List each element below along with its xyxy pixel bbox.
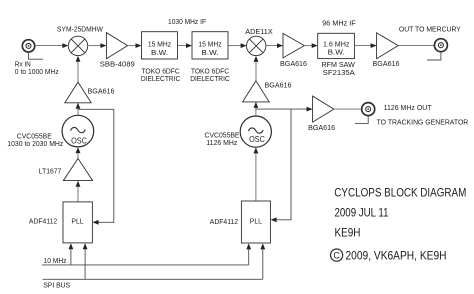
wire into A7 xyxy=(307,107,313,112)
wire A5 to OSC1 xyxy=(76,147,81,158)
net 10 MHz bus xyxy=(42,256,249,265)
wire A7 to connector J3 xyxy=(334,108,362,110)
svg-text:B.W.: B.W. xyxy=(328,48,345,57)
svg-text:ADF4112: ADF4112 xyxy=(29,217,57,226)
ground of J3 xyxy=(355,116,368,124)
svg-text:1126 MHz OUT: 1126 MHz OUT xyxy=(384,103,432,112)
ground of J2 xyxy=(427,52,441,60)
wire FL2 to mixer U2 xyxy=(228,43,247,48)
svg-text:0 to 1000 MHz: 0 to 1000 MHz xyxy=(15,69,59,76)
svg-text:OSC: OSC xyxy=(71,135,87,145)
svg-text:OUT TO MERCURY: OUT TO MERCURY xyxy=(399,24,461,33)
op-amp A2 BGA616 xyxy=(280,33,307,68)
filter FL3 1.6 MHz B.W. RFM SAW SF2135A xyxy=(318,33,355,58)
label RFM SAW SF2135A (FL3) xyxy=(321,60,355,77)
svg-text:ADF4112: ADF4112 xyxy=(210,217,238,226)
op-amp A1 SBB-4089 xyxy=(100,33,135,69)
wire FL3 to amp A3 xyxy=(354,43,376,48)
svg-text:PLL: PLL xyxy=(71,216,83,225)
wire OSC2 to A6 xyxy=(254,102,259,116)
svg-text:DIELECTRIC: DIELECTRIC xyxy=(141,74,181,83)
filter FL1 15 MHz B.W. xyxy=(142,32,178,59)
svg-text:1126 MHz: 1126 MHz xyxy=(206,140,237,147)
svg-text:OSC: OSC xyxy=(249,134,265,144)
wire LO2 feedback to PLL2 xyxy=(271,109,291,222)
svg-text:1030 MHz IF: 1030 MHz IF xyxy=(168,17,206,26)
label CVC055BE 1030 to 2030 MHz xyxy=(7,134,63,148)
svg-text:2009, VK6APH, KE9H: 2009, VK6APH, KE9H xyxy=(346,248,447,262)
connector J2 OUT TO MERCURY xyxy=(399,24,461,51)
wire FL1 to FL2 xyxy=(178,43,193,48)
svg-text:CVC055BE: CVC055BE xyxy=(17,134,52,141)
node LO2 branch to amp A7 xyxy=(256,108,307,110)
svg-text:Rx IN: Rx IN xyxy=(15,62,31,69)
wire U1 to amp A1 xyxy=(88,43,107,48)
wire 10 MHz to PLL2 xyxy=(246,243,251,265)
svg-text:96 MHz IF: 96 MHz IF xyxy=(322,19,356,28)
svg-text:1030 to 2030 MHz: 1030 to 2030 MHz xyxy=(7,141,63,148)
svg-text:BGA616: BGA616 xyxy=(280,59,307,68)
label TOKO 6DFC DIELECTRIC (FL1) xyxy=(141,66,181,83)
svg-text:B.W.: B.W. xyxy=(202,48,219,57)
wire J1 to mixer U1 xyxy=(35,43,68,48)
label 1126 MHz OUT / TO TRACKING GENERATOR xyxy=(377,103,469,126)
wire A3 to connector J2 xyxy=(398,45,434,47)
wire U2 to amp A2 xyxy=(266,43,283,48)
svg-text:B.W.: B.W. xyxy=(151,48,168,57)
wire U2 LO port from amp A6 xyxy=(254,56,259,81)
wire SPI to PLL2 xyxy=(260,243,265,279)
mixer U2 ADE11X xyxy=(245,27,273,56)
label CVC055BE 1126 MHz xyxy=(205,132,240,147)
svg-text:2009 JUL 11: 2009 JUL 11 xyxy=(335,206,389,220)
title CYCLOPS BLOCK DIAGRAM xyxy=(334,185,466,239)
wire A2 to filter FL3 xyxy=(304,43,317,48)
svg-text:C: C xyxy=(333,250,340,260)
svg-text:SPI BUS: SPI BUS xyxy=(43,280,70,289)
svg-text:BGA616: BGA616 xyxy=(265,81,292,90)
op-amp A7 BGA616 xyxy=(308,96,335,132)
svg-text:BGA616: BGA616 xyxy=(308,123,335,132)
wire SPI to PLL1 xyxy=(83,243,88,279)
mixer U1 SYM-25DMHW xyxy=(57,25,104,56)
svg-text:KE9H: KE9H xyxy=(335,226,361,240)
label TOKO 6DFC DIELECTRIC (FL2) xyxy=(190,66,230,83)
svg-text:CYCLOPS BLOCK DIAGRAM: CYCLOPS BLOCK DIAGRAM xyxy=(334,185,466,199)
node LO1 feedback branch to PLL1 xyxy=(78,109,114,224)
op-amp A3 BGA616 xyxy=(373,33,400,68)
wire U1 LO port from amp A4 xyxy=(76,56,81,82)
net SPI BUS xyxy=(43,279,263,289)
connector J1 Rx IN xyxy=(22,40,34,52)
svg-text:ADE11X: ADE11X xyxy=(245,27,273,36)
oscillator G1 CVC055BE OSC xyxy=(62,115,94,147)
op-amp A4 BGA616 xyxy=(65,82,115,103)
op-amp A5 LT1677 xyxy=(39,158,93,180)
svg-text:SYM-25DMHW: SYM-25DMHW xyxy=(57,25,104,34)
svg-text:PLL: PLL xyxy=(250,216,262,225)
ground of J1 xyxy=(29,52,44,59)
oscillator G2 CVC055BE OSC xyxy=(240,116,271,147)
connector J3 1126 MHz OUT xyxy=(362,103,375,116)
label Rx IN / 0 to 1000 MHz xyxy=(15,62,59,77)
PLL U3 ADF4112 xyxy=(63,202,92,243)
svg-text:BGA616: BGA616 xyxy=(88,86,115,95)
svg-text:DIELECTRIC: DIELECTRIC xyxy=(190,74,230,83)
wire PLL1 to A5 xyxy=(76,181,81,202)
wire OSC1 to A4 xyxy=(76,103,81,116)
filter FL2 15 MHz B.W. xyxy=(192,32,228,59)
svg-text:TO TRACKING GENERATOR: TO TRACKING GENERATOR xyxy=(377,117,469,126)
svg-text:10 MHz: 10 MHz xyxy=(44,256,67,265)
wire 10 MHz to PLL1 xyxy=(69,243,74,265)
svg-text:LT1677: LT1677 xyxy=(39,166,62,175)
svg-text:SF2135A: SF2135A xyxy=(323,68,355,77)
wire A1 to filter FL1 xyxy=(128,43,142,48)
PLL U4 ADF4112 xyxy=(241,201,270,243)
svg-text:SBB-4089: SBB-4089 xyxy=(100,60,135,69)
copyright line xyxy=(331,248,447,262)
wire PLL2 to OSC2 xyxy=(254,147,259,201)
svg-text:BGA616: BGA616 xyxy=(373,59,400,68)
op-amp A6 BGA616 xyxy=(243,81,292,102)
svg-text:CVC055BE: CVC055BE xyxy=(205,132,240,139)
